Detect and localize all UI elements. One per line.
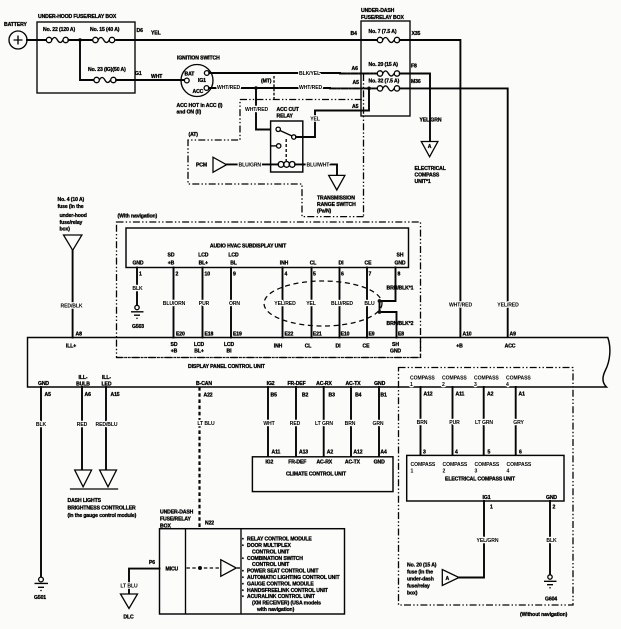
svg-text:+B: +B — [171, 349, 178, 355]
svg-text:GRY: GRY — [513, 420, 524, 426]
svg-text:3: 3 — [475, 469, 478, 475]
svg-text:4: 4 — [506, 382, 509, 388]
label (MT) option divider — [261, 76, 274, 99]
svg-text:E19: E19 — [233, 332, 242, 338]
svg-text:3: 3 — [423, 450, 426, 456]
svg-text:ILL-: ILL- — [79, 375, 88, 381]
svg-text:LCD: LCD — [224, 342, 235, 348]
svg-text:A2: A2 — [327, 450, 334, 456]
svg-text:BI: BI — [227, 349, 233, 355]
svg-text:A8: A8 — [76, 332, 83, 338]
svg-text:YEL: YEL — [310, 117, 320, 123]
wire BLK GND-A5 to G501 — [36, 387, 47, 578]
under-dash fuse/relay box (top) — [361, 8, 410, 116]
node shield tap 2 — [378, 310, 382, 314]
svg-text:AUDIO HVAC SUBDISPLAY UNIT: AUDIO HVAC SUBDISPLAY UNIT — [210, 244, 287, 250]
svg-text:COMPASS: COMPASS — [506, 376, 531, 382]
svg-text:SD: SD — [171, 342, 178, 348]
svg-text:COMPASS: COMPASS — [474, 376, 499, 382]
fuse No.23 (IG)(50 A) — [88, 67, 126, 83]
svg-text:FUSE/RELAY BOX: FUSE/RELAY BOX — [361, 15, 404, 21]
svg-text:A2: A2 — [487, 392, 494, 398]
wire BLK/YEL IG1 to A6 — [209, 71, 377, 77]
svg-text:GND: GND — [390, 349, 401, 355]
svg-text:No. 7 (7.5 A): No. 7 (7.5 A) — [369, 29, 397, 35]
dashed link buffer to list — [237, 567, 241, 569]
svg-text:CONTROL UNIT: CONTROL UNIT — [252, 549, 290, 555]
svg-text:7: 7 — [369, 272, 372, 278]
(AT) option dash-dot boundary — [188, 74, 364, 217]
svg-text:BLU/WHT: BLU/WHT — [307, 163, 331, 169]
svg-text:(Without navigation): (Without navigation) — [520, 612, 568, 618]
svg-text:CL: CL — [310, 261, 317, 267]
svg-text:BAT: BAT — [185, 72, 196, 78]
svg-text:B4: B4 — [355, 393, 362, 399]
svg-text:E22: E22 — [285, 332, 294, 338]
svg-text:COMPASS: COMPASS — [411, 462, 436, 468]
svg-text:BRN/BLK*1: BRN/BLK*1 — [387, 286, 414, 292]
svg-text:1: 1 — [411, 469, 414, 475]
svg-text:A9: A9 — [510, 332, 517, 338]
svg-text:UNIT*1: UNIT*1 — [415, 179, 431, 185]
wire BLU/ORN pin2 to E20 — [163, 268, 186, 338]
svg-text:SH: SH — [392, 342, 399, 348]
svg-text:BLK: BLK — [132, 286, 143, 292]
svg-text:A10: A10 — [463, 332, 472, 338]
svg-text:A4: A4 — [380, 450, 387, 456]
with navigation dash-dot box — [117, 214, 421, 358]
fuse No.20 (15 A) — [369, 62, 400, 76]
svg-text:M36: M36 — [411, 79, 421, 85]
svg-text:D6: D6 — [137, 28, 144, 34]
svg-text:BRN/BLK*2: BRN/BLK*2 — [387, 321, 414, 327]
svg-text:3: 3 — [474, 382, 477, 388]
svg-text:+B: +B — [456, 344, 463, 350]
shield ellipse around INH CL DI CE — [264, 281, 382, 326]
svg-text:A12: A12 — [424, 392, 433, 398]
wire GRY COMPASS4 — [513, 387, 524, 455]
svg-text:ELECTRICAL: ELECTRICAL — [415, 166, 446, 172]
svg-text:X35: X35 — [412, 31, 421, 37]
svg-text:DOOR MULTIPLEX: DOOR MULTIPLEX — [247, 543, 291, 549]
svg-text:1: 1 — [410, 382, 413, 388]
svg-text:YEL/GRN: YEL/GRN — [420, 118, 442, 124]
svg-text:IGNITION SWITCH: IGNITION SWITCH — [177, 56, 220, 62]
fuse No.7 (7.5 A) — [369, 29, 400, 43]
svg-text:AC-TX: AC-TX — [345, 460, 361, 466]
svg-text:BL: BL — [230, 261, 237, 267]
svg-text:B3: B3 — [329, 393, 336, 399]
svg-text:A: A — [446, 576, 450, 582]
svg-text:SH: SH — [397, 253, 404, 259]
svg-text:TRANSMISSION: TRANSMISSION — [317, 196, 355, 202]
svg-text:BLK/YEL: BLK/YEL — [299, 71, 320, 77]
svg-text:G1: G1 — [135, 71, 142, 77]
svg-text:BLK: BLK — [546, 538, 557, 544]
svg-text:DLC: DLC — [123, 615, 134, 621]
svg-text:A11: A11 — [272, 450, 281, 456]
svg-text:CLIMATE CONTROL UNIT: CLIMATE CONTROL UNIT — [286, 472, 347, 478]
svg-text:RED: RED — [290, 421, 301, 427]
svg-text:RED/BLU: RED/BLU — [96, 422, 118, 428]
svg-text:AC-RX: AC-RX — [316, 460, 332, 466]
svg-text:IG2: IG2 — [265, 460, 273, 466]
svg-text:No. 20 (15 A): No. 20 (15 A) — [407, 563, 437, 569]
svg-text:6: 6 — [519, 450, 522, 456]
svg-text:COMPASS: COMPASS — [507, 462, 532, 468]
svg-text:UNDER-DASH: UNDER-DASH — [160, 510, 194, 516]
svg-text:P6: P6 — [149, 560, 155, 566]
svg-text:A22: A22 — [204, 393, 213, 399]
svg-text:YEL: YEL — [151, 31, 161, 37]
wire LT BLU B-CAN dashed — [197, 387, 215, 566]
svg-text:INH: INH — [280, 261, 289, 267]
svg-text:COMPASS: COMPASS — [442, 376, 467, 382]
wire GRN GND to climate — [372, 387, 383, 457]
svg-text:B-CAN: B-CAN — [196, 381, 212, 387]
svg-text:WHT/RED: WHT/RED — [245, 107, 268, 113]
svg-text:BRIGHTNESS CONTROLLER: BRIGHTNESS CONTROLLER — [68, 506, 137, 512]
dashed link MICU to control units — [187, 567, 220, 569]
svg-text:ILL+: ILL+ — [66, 344, 76, 350]
svg-text:BOX: BOX — [160, 524, 171, 530]
svg-text:PCM: PCM — [196, 163, 207, 169]
svg-text:6: 6 — [341, 272, 344, 278]
wire WHT G1 to ignition BAT — [116, 74, 184, 80]
battery B1 — [4, 22, 27, 49]
fuse No.22 (120 A) — [43, 27, 76, 43]
svg-text:WHT/RED: WHT/RED — [217, 85, 240, 91]
svg-text:FR-DEF: FR-DEF — [288, 460, 306, 466]
wire PUR COMPASS2 — [449, 387, 460, 455]
svg-text:fuse (in the: fuse (in the — [407, 570, 433, 576]
svg-text:B4: B4 — [351, 31, 358, 37]
svg-text:A1: A1 — [519, 392, 526, 398]
svg-text:COMPASS: COMPASS — [443, 462, 468, 468]
svg-text:(XM RECEIVER) (USA models: (XM RECEIVER) (USA models — [252, 601, 321, 607]
svg-text:10: 10 — [205, 272, 211, 278]
svg-text:RELAY CONTROL MODULE: RELAY CONTROL MODULE — [247, 537, 312, 543]
node junction underhood — [78, 38, 81, 41]
wire BLU/RED pin6 to E10 — [331, 268, 353, 338]
svg-text:(With navigation): (With navigation) — [118, 214, 158, 220]
svg-text:GND: GND — [38, 381, 49, 387]
svg-text:LCD: LCD — [198, 253, 209, 259]
wire LT GRN COMPASS3 — [475, 387, 493, 455]
wire RED ILL-BULB to dash lights — [77, 387, 88, 470]
svg-text:A15: A15 — [111, 392, 120, 398]
svg-text:GND: GND — [546, 495, 557, 501]
transmission range switch — [317, 175, 356, 214]
wire ORN pin9 to E19 — [229, 268, 240, 338]
svg-text:E10: E10 — [341, 332, 350, 338]
svg-text:BULB: BULB — [76, 382, 90, 388]
svg-text:2: 2 — [443, 469, 446, 475]
svg-text:B5: B5 — [271, 393, 278, 399]
svg-text:GND: GND — [394, 261, 405, 267]
svg-text:COMBINATION SWITCH: COMBINATION SWITCH — [247, 556, 303, 562]
svg-text:No. 20 (15 A): No. 20 (15 A) — [369, 62, 399, 68]
svg-text:ACC HOT in ACC (I): ACC HOT in ACC (I) — [177, 103, 223, 109]
node shield tap 1 — [378, 299, 382, 303]
svg-text:4: 4 — [455, 450, 458, 456]
svg-text:G503: G503 — [132, 324, 144, 330]
svg-text:ACC CUT: ACC CUT — [277, 107, 300, 113]
svg-text:+B: +B — [168, 261, 175, 267]
without navigation dash-dot box — [399, 368, 574, 619]
svg-text:(in the gauge control module): (in the gauge control module) — [68, 513, 137, 519]
svg-text:A6: A6 — [352, 66, 359, 72]
svg-text:A5: A5 — [352, 104, 359, 110]
svg-text:BRN: BRN — [417, 420, 428, 426]
svg-text:N22: N22 — [205, 521, 214, 527]
wire BRN AC-TX to climate — [345, 387, 356, 457]
svg-text:SD: SD — [168, 253, 175, 259]
wire YEL/RED pin4 to E22 — [274, 268, 296, 338]
wire WHT IG2 to climate — [263, 387, 275, 457]
ground G501 — [34, 577, 48, 601]
svg-text:CL: CL — [305, 344, 312, 350]
svg-text:LT BLU: LT BLU — [197, 421, 215, 427]
svg-text:POWER SEAT CONTROL UNIT: POWER SEAT CONTROL UNIT — [247, 569, 319, 575]
svg-text:ACC: ACC — [193, 89, 204, 95]
svg-text:DI: DI — [336, 344, 342, 350]
svg-text:CE: CE — [363, 344, 371, 350]
svg-text:BL+: BL+ — [199, 261, 209, 267]
svg-text:A5: A5 — [45, 392, 52, 398]
svg-text:RED/BLK: RED/BLK — [61, 304, 83, 310]
svg-text:AUTOMATIC LIGHTING CONTROL UNI: AUTOMATIC LIGHTING CONTROL UNIT — [247, 575, 341, 581]
svg-text:RED: RED — [77, 422, 88, 428]
triangle feed from No.4 fuse — [64, 235, 82, 250]
svg-text:BLU: BLU — [364, 301, 375, 307]
svg-text:No. 23 (IG)(50 A): No. 23 (IG)(50 A) — [88, 67, 126, 73]
svg-text:under-hood: under-hood — [60, 213, 87, 219]
svg-text:No. 15 (40 A): No. 15 (40 A) — [90, 27, 120, 33]
svg-text:HANDSFREELINK CONTROL UNIT: HANDSFREELINK CONTROL UNIT — [247, 588, 329, 594]
svg-text:fuse (in the: fuse (in the — [58, 204, 84, 210]
svg-text:5: 5 — [488, 450, 491, 456]
node junction B-CAN MICU — [198, 566, 202, 570]
svg-text:BLU/ORN: BLU/ORN — [163, 301, 186, 307]
svg-text:G501: G501 — [34, 595, 46, 601]
wire WHT/RED down to ACC cut relay — [245, 88, 277, 130]
svg-text:fuse/relay: fuse/relay — [60, 220, 83, 226]
svg-text:LT GRN: LT GRN — [315, 421, 333, 427]
svg-text:GND: GND — [132, 261, 143, 267]
svg-text:E8: E8 — [398, 332, 404, 338]
svg-text:with navigation): with navigation) — [256, 607, 295, 613]
svg-text:CONTROL UNIT: CONTROL UNIT — [252, 562, 290, 568]
buffer triangle MICU — [221, 560, 237, 577]
wire RED/BLK to ILL+ A8 — [61, 250, 83, 337]
svg-text:E21: E21 — [313, 332, 322, 338]
wire RED/BLU ILL-LED to dash lights — [96, 387, 118, 470]
svg-text:ACURALINK CONTROL UNIT: ACURALINK CONTROL UNIT — [247, 594, 316, 600]
svg-text:AC-TX: AC-TX — [345, 381, 361, 387]
svg-text:ELECTRICAL COMPASS UNIT: ELECTRICAL COMPASS UNIT — [445, 477, 516, 483]
svg-text:PUR: PUR — [449, 420, 460, 426]
svg-text:GAUGE CONTROL MODULE: GAUGE CONTROL MODULE — [247, 581, 314, 587]
audio hvac subdisplay unit — [126, 228, 409, 268]
svg-text:UNDER-HOOD FUSE/RELAY BOX: UNDER-HOOD FUSE/RELAY BOX — [38, 14, 117, 20]
wire battery to under-hood box — [27, 39, 49, 41]
ground G604 — [544, 575, 557, 603]
svg-text:under-dash: under-dash — [407, 577, 434, 583]
svg-text:ORN: ORN — [229, 301, 240, 307]
under-dash fuse/relay box (bottom) MICU — [160, 510, 345, 615]
svg-text:box): box) — [407, 591, 418, 597]
svg-text:No. 32 (7.5 A): No. 32 (7.5 A) — [369, 79, 400, 85]
wire WHT/RED ACC to A5 — [209, 85, 377, 91]
svg-text:COMPASS: COMPASS — [410, 376, 435, 382]
under-hood fuse/relay box — [37, 14, 135, 93]
svg-text:RANGE SWITCH: RANGE SWITCH — [317, 202, 356, 208]
wire BLU pin7 to E9 — [364, 268, 375, 338]
svg-text:B1: B1 — [380, 393, 387, 399]
svg-text:BLU/GRN: BLU/GRN — [239, 163, 262, 169]
wire SH GND pin8 shield drain — [380, 268, 397, 338]
svg-text:BLU/RED: BLU/RED — [331, 301, 353, 307]
svg-text:MICU: MICU — [166, 567, 179, 573]
svg-text:WHT/RED: WHT/RED — [299, 85, 322, 91]
svg-text:5: 5 — [313, 272, 316, 278]
svg-text:LT GRN: LT GRN — [475, 420, 493, 426]
fuse No.15 (40 A) — [90, 27, 120, 43]
svg-text:4: 4 — [507, 469, 510, 475]
svg-text:YEL/RED: YEL/RED — [274, 301, 296, 307]
climate control unit — [252, 450, 393, 492]
ignition switch — [177, 56, 223, 116]
svg-text:No. 4 (10 A): No. 4 (10 A) — [58, 197, 85, 203]
svg-text:BATTERY: BATTERY — [4, 22, 27, 28]
wire RED FR-DEF to climate — [290, 387, 301, 457]
DLC triangle — [121, 594, 138, 621]
node junction at A5 fuse input — [367, 87, 371, 91]
wire YEL from D6 to under-dash fuse box — [116, 31, 377, 41]
wire BLK GND to G604 — [546, 501, 557, 575]
svg-text:A: A — [428, 144, 432, 150]
control unit list — [242, 537, 341, 614]
svg-text:4: 4 — [285, 272, 288, 278]
svg-text:E9: E9 — [369, 332, 375, 338]
wire BLK pin1 to G503 — [132, 268, 143, 306]
svg-text:1: 1 — [139, 272, 142, 278]
wire YEL relay to A5 — [296, 88, 369, 137]
svg-text:box): box) — [60, 227, 71, 233]
svg-text:WHT/RED: WHT/RED — [449, 303, 472, 309]
svg-text:fuse/relay: fuse/relay — [407, 584, 430, 590]
svg-text:8: 8 — [398, 272, 401, 278]
svg-text:WHT: WHT — [151, 74, 163, 80]
svg-text:2: 2 — [442, 382, 445, 388]
svg-text:A6: A6 — [85, 392, 92, 398]
triangle ref A from fuse 20 — [407, 563, 459, 597]
svg-text:DASH LIGHTS: DASH LIGHTS — [68, 498, 102, 504]
wire BRN COMPASS1 — [417, 387, 428, 455]
svg-text:F8: F8 — [411, 64, 417, 70]
svg-text:RELAY: RELAY — [277, 114, 294, 120]
svg-text:YEL/RED: YEL/RED — [497, 303, 519, 309]
svg-text:FUSE/RELAY: FUSE/RELAY — [160, 517, 191, 523]
wire fuse22 to fuse15 — [68, 39, 92, 41]
wire YEL/GRN F8 to compass fuse arrow A — [400, 74, 430, 142]
svg-text:DISPLAY PANEL CONTROL UNIT: DISPLAY PANEL CONTROL UNIT — [188, 364, 266, 370]
svg-text:LCD: LCD — [228, 253, 239, 259]
svg-text:2: 2 — [553, 505, 556, 511]
svg-text:GND: GND — [374, 460, 385, 466]
electrical compass unit — [407, 450, 564, 502]
wire PUR pin10 to E18 — [199, 268, 210, 338]
svg-text:E18: E18 — [205, 332, 214, 338]
svg-text:DI: DI — [339, 261, 345, 267]
svg-text:No. 22 (120 A): No. 22 (120 A) — [43, 27, 76, 33]
svg-text:ILL-: ILL- — [102, 375, 111, 381]
PCM — [196, 157, 227, 172]
svg-text:COMPASS: COMPASS — [475, 462, 500, 468]
wire YEL/RED M36 down to display panel ACC — [400, 88, 508, 337]
svg-text:CE: CE — [365, 261, 373, 267]
svg-text:1: 1 — [490, 505, 493, 511]
svg-text:(Pa/N): (Pa/N) — [317, 209, 332, 215]
svg-text:(MT): (MT) — [261, 79, 272, 85]
svg-text:GRN: GRN — [372, 421, 383, 427]
acc cut relay — [271, 107, 303, 172]
triangle ref A to electrical compass unit — [415, 142, 446, 186]
svg-text:A12: A12 — [353, 450, 362, 456]
fuse No.32 (7.5 A) — [369, 79, 400, 92]
svg-text:G604: G604 — [545, 597, 557, 603]
wire YEL pin5 to E21 — [306, 268, 316, 338]
wire LT GRN AC-RX to climate — [315, 387, 333, 457]
svg-text:B2: B2 — [302, 393, 309, 399]
svg-text:PUR: PUR — [199, 301, 210, 307]
wire LT BLU P6 to DLC — [120, 569, 159, 594]
svg-text:WHT: WHT — [263, 421, 275, 427]
svg-text:E20: E20 — [176, 332, 185, 338]
svg-text:BRN: BRN — [345, 421, 356, 427]
svg-text:2: 2 — [176, 272, 179, 278]
svg-text:LT BLU: LT BLU — [120, 584, 138, 590]
display panel control unit bar — [28, 338, 610, 388]
wire YEL/GRN IG1 to fuse arrow — [460, 501, 499, 578]
svg-text:and ON (II): and ON (II) — [177, 110, 202, 116]
wire BLU/GRN PCM to relay coil — [227, 163, 271, 169]
svg-text:BLK: BLK — [36, 422, 47, 428]
svg-text:ACC: ACC — [505, 344, 516, 350]
wire BLU/WHT relay coil to transmission range switch — [303, 163, 337, 176]
wire junction down to fuse23 — [80, 40, 94, 80]
svg-text:9: 9 — [233, 272, 236, 278]
ground G503 — [131, 305, 144, 330]
svg-text:YEL/GRN: YEL/GRN — [477, 538, 499, 544]
svg-text:INH: INH — [274, 344, 283, 350]
svg-text:IG1: IG1 — [198, 78, 206, 84]
svg-text:COMPASS: COMPASS — [415, 173, 440, 179]
svg-text:UNDER-DASH: UNDER-DASH — [361, 8, 395, 14]
wire WHT/RED X35 down to display panel +B — [400, 40, 461, 338]
svg-text:LCD: LCD — [194, 342, 205, 348]
svg-text:A11: A11 — [456, 392, 465, 398]
svg-text:YEL: YEL — [306, 301, 316, 307]
svg-text:(AT): (AT) — [189, 132, 199, 138]
with-nav dash-dot bottom edge inside bar — [117, 338, 421, 358]
node junction WHT/RED at ACC — [254, 86, 258, 90]
No.4 fuse note — [58, 197, 87, 233]
svg-text:A13: A13 — [299, 450, 308, 456]
svg-text:A5: A5 — [353, 80, 360, 86]
svg-text:BL+: BL+ — [194, 349, 204, 355]
